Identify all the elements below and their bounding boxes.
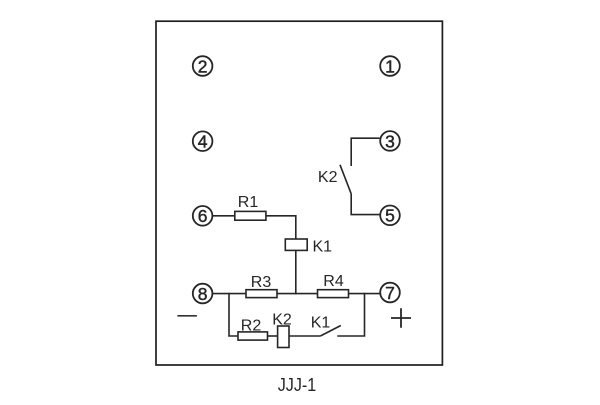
svg-text:R2: R2 [241,318,262,335]
wire: resistor R4 to terminal 7 [349,293,381,295]
wire: coil K2 to switch K1 left contact [289,335,320,337]
svg-text:6: 6 [198,206,208,226]
svg-text:K2: K2 [272,311,292,328]
wire: coil K1 to node on main line [295,250,297,294]
wire: terminal 3 to switch K2 top contact [351,138,379,166]
wire: switch K1 right contact to right riser up to main line [337,293,364,336]
terminal 4 [193,131,213,151]
coil K1 [285,239,307,250]
wire: switch K2 bottom contact to terminal 5 [351,194,379,215]
wire: terminal 6 to resistor R1 [212,215,234,217]
terminal 6 [193,206,213,226]
svg-text:K2: K2 [318,169,338,186]
wire: resistor R1 to coil K1 [266,216,296,239]
switch K2 blade [340,165,351,194]
terminal 8 [193,284,213,304]
resistor R2 [238,332,268,340]
terminal 3 [380,131,400,151]
terminal 2 [193,56,213,76]
svg-text:R4: R4 [323,273,344,290]
svg-text:1: 1 [385,56,395,76]
resistor R3 [246,290,277,298]
frame border [156,21,442,365]
svg-text:JJJ-1: JJJ-1 [278,374,317,395]
svg-text:5: 5 [385,206,395,226]
wire: resistor R3 to resistor R4 [277,293,318,295]
svg-text:8: 8 [198,284,208,304]
svg-text:2: 2 [198,56,208,76]
polarity minus [177,315,197,317]
svg-text:4: 4 [198,132,208,152]
svg-text:R3: R3 [251,274,272,291]
wire: resistor R2 to coil K2 [268,335,278,337]
resistor R4 [318,290,349,298]
wire: left riser from main line down to lower branch [229,293,238,336]
svg-text:3: 3 [385,131,395,151]
switch K1 blade [320,326,340,337]
terminal 1 [380,56,400,76]
svg-text:K1: K1 [313,239,333,256]
terminal 5 [380,206,400,226]
terminal 7 [380,283,400,303]
wire: terminal 8 to resistor R3 [212,293,246,295]
svg-text:R1: R1 [238,194,259,211]
coil K2 [278,326,289,348]
svg-text:K1: K1 [311,315,331,332]
polarity plus [391,308,411,327]
resistor R1 [235,211,266,220]
svg-text:7: 7 [385,283,395,303]
